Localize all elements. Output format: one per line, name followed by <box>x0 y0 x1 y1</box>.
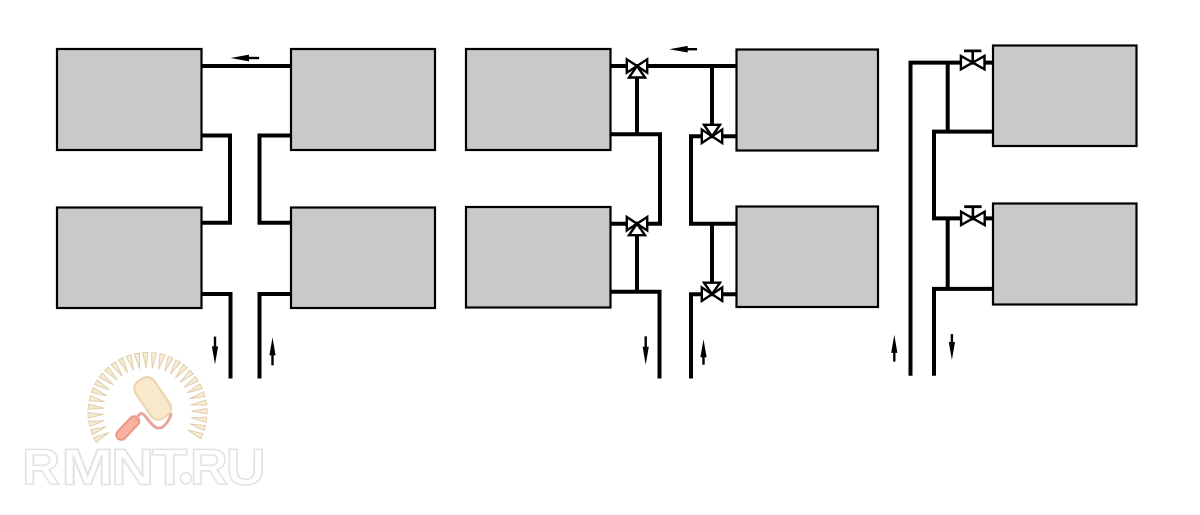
svg-text:T: T <box>152 439 187 496</box>
svg-text:U: U <box>226 439 265 496</box>
svg-text:R: R <box>22 438 60 495</box>
svg-text:N: N <box>111 439 154 496</box>
svg-text:R: R <box>190 438 228 495</box>
svg-text:M: M <box>61 439 113 496</box>
